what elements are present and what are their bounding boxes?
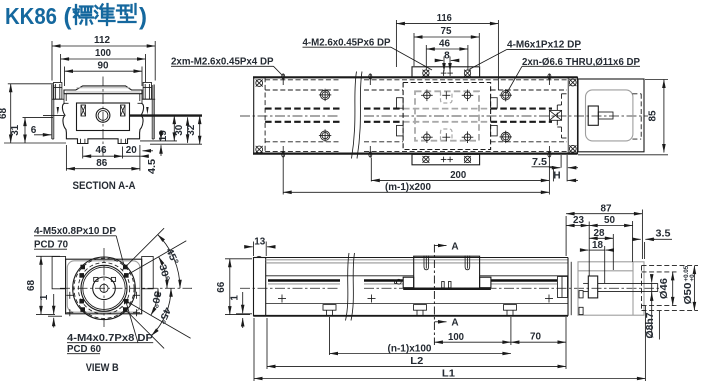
side motor bracket gray (578, 262, 644, 315)
svg-text:L2: L2 (410, 356, 423, 367)
svg-text:75: 75 (441, 26, 452, 37)
svg-text:3.5: 3.5 (656, 229, 671, 240)
svg-text:): ) (139, 4, 147, 31)
svg-text:PCD 60: PCD 60 (67, 344, 102, 355)
svg-text:30°: 30° (148, 290, 162, 309)
dimension 31 (23, 117, 54, 119)
dimension 30 (187, 117, 189, 143)
side section line A-A (433, 245, 435, 346)
dimension (n-1)x100 (330, 353, 511, 355)
plan ball screw hidden thick (265, 108, 340, 110)
side coupling (588, 276, 597, 298)
2xn counterbore holes right pair (500, 89, 512, 101)
rail top flange lines (52, 98, 64, 100)
block screw right (121, 105, 126, 116)
side break lines (346, 253, 350, 321)
svg-text:SECTION A-A: SECTION A-A (73, 180, 136, 192)
base bottom reference lines (150, 143, 202, 145)
base feet inner lines (80, 139, 82, 144)
svg-text:23: 23 (573, 215, 584, 226)
side carriage wings (403, 277, 414, 288)
dimension 50 (588, 222, 590, 277)
2xn counterbore holes left pair (319, 89, 331, 101)
svg-text:4-M4x0.7Px8 DP: 4-M4x0.7Px8 DP (67, 333, 154, 344)
side screw end bearing (558, 277, 568, 298)
plan body end face (567, 77, 569, 153)
side base bottom (254, 315, 569, 317)
side base top line (266, 303, 568, 305)
dimension 1 side (242, 292, 244, 313)
view B leader M5 (116, 236, 123, 264)
bottom flange plate (412, 154, 480, 165)
svg-text:116: 116 (437, 13, 452, 24)
motor hidden lines plan (640, 94, 642, 139)
view B radial lines (122, 228, 164, 270)
carriage small cross marks (442, 91, 450, 99)
dimension 68 (8, 83, 53, 85)
svg-text:66: 66 (216, 281, 227, 292)
dimension O8h7 (651, 276, 653, 283)
side carriage block (414, 256, 480, 288)
view B shaft hole (93, 277, 116, 300)
carriage block section (77, 103, 130, 131)
plan bottom dims ext lines (552, 167, 554, 182)
svg-text:100: 100 (95, 48, 111, 59)
datum surface line right (130, 114, 203, 116)
svg-text:7.5: 7.5 (532, 157, 547, 168)
svg-text:4.5: 4.5 (147, 159, 158, 174)
dimension 19 (173, 116, 175, 141)
locknut symbol (549, 110, 561, 120)
svg-text:Ø8h7: Ø8h7 (645, 312, 656, 338)
svg-text:68: 68 (0, 108, 9, 119)
view B rail ears (52, 257, 66, 289)
svg-text:70: 70 (530, 332, 541, 343)
plan hidden rail edges (265, 89, 340, 91)
side motor hidden dashed (641, 266, 643, 311)
motor body gray rounded (586, 90, 633, 141)
svg-text:18: 18 (592, 240, 603, 251)
section A-A centerline (102, 77, 104, 164)
svg-text:KK86: KK86 (5, 3, 57, 29)
clamp arrows under posts (57, 107, 59, 115)
table top plate (64, 86, 142, 94)
view B corner plus marks (66, 292, 73, 299)
dimension 87 (565, 216, 567, 256)
view B pilot circle (73, 257, 136, 320)
plan left cap hidden edge (264, 77, 266, 153)
carriage hidden outline (403, 83, 491, 150)
svg-text:20: 20 (126, 145, 137, 156)
dimension 8 (443, 57, 445, 72)
svg-text:A: A (451, 318, 458, 329)
view B angle arc 45 bottom (151, 288, 171, 335)
svg-text:1: 1 (39, 294, 50, 300)
svg-text:PCD 70: PCD 70 (34, 239, 69, 250)
dimension 86 (66, 168, 139, 170)
right flange screw post (143, 83, 151, 100)
side bottom ext lines (253, 318, 255, 381)
side dowel pins (442, 282, 445, 288)
dimension L1 (254, 378, 645, 380)
svg-text:28: 28 (594, 228, 605, 239)
svg-text:L1: L1 (442, 368, 455, 379)
view B angle arc 30 bottom (151, 288, 158, 315)
svg-text:90: 90 (98, 60, 109, 71)
svg-text:8: 8 (444, 51, 450, 62)
carriage top plate gray hidden (415, 91, 479, 140)
side motor shaft (598, 282, 658, 284)
svg-text:46: 46 (439, 38, 450, 49)
svg-text:A: A (451, 241, 458, 252)
svg-text:32: 32 (186, 124, 197, 135)
view B dimension 68 (36, 255, 60, 257)
svg-text:4-M5x0.8Px10 DP: 4-M5x0.8Px10 DP (34, 226, 116, 237)
svg-text:87: 87 (601, 203, 612, 214)
dimension 100 (60, 54, 62, 82)
dimension 116 (395, 20, 397, 67)
dimension 75 (413, 33, 415, 66)
svg-text:46: 46 (96, 145, 107, 156)
side grease nipple (396, 279, 401, 284)
dimension 4.5 (160, 130, 162, 140)
svg-text:VIEW B: VIEW B (86, 362, 119, 374)
dimension 112 (51, 41, 53, 81)
carriage side wiper tabs (397, 98, 404, 109)
svg-text:Ø50: Ø50 (683, 282, 694, 305)
base profile (62, 103, 143, 143)
svg-text:H: H (553, 170, 560, 181)
dimension 23 (566, 225, 589, 227)
view B centerlines (103, 248, 105, 327)
2xm hole ticks top edge (282, 74, 285, 86)
view B angle arc 45 top (158, 235, 180, 289)
svg-text:30: 30 (174, 124, 185, 135)
dimension 13 (253, 242, 255, 257)
view B angle arc 30 top (159, 257, 167, 289)
svg-text:(n-1)x100: (n-1)x100 (388, 343, 433, 354)
side cover lines (266, 259, 568, 261)
view B horizontal ref to arcs (191, 287, 194, 289)
side centerline (240, 287, 340, 289)
ball screw bore circle (96, 109, 110, 123)
side ball screw thick (268, 279, 340, 281)
plan corner screw bottom-right (569, 145, 576, 152)
view B bearing rings (81, 265, 127, 311)
view B flange square (66, 259, 142, 314)
view B motor gray rounded square (67, 261, 140, 312)
right side plate (153, 85, 155, 140)
svg-text:86: 86 (96, 158, 107, 169)
side mounting bolts (323, 305, 336, 311)
side carriage screws (424, 256, 429, 270)
svg-text:68: 68 (26, 280, 37, 291)
dimension 85 (645, 79, 668, 81)
motor housing plan (578, 79, 644, 152)
top flange plate (412, 67, 480, 78)
svg-text:+0: +0 (689, 274, 696, 282)
svg-text:(m-1)x200: (m-1)x200 (385, 182, 432, 193)
dimension 46 (83, 155, 123, 157)
block screw left (81, 105, 86, 116)
dimension 90 (64, 67, 66, 87)
dimension 70 (511, 341, 566, 343)
section bottom ext lines (65, 145, 67, 171)
view B M4 holes PCD60 (124, 273, 129, 278)
motor shaft plan (588, 106, 598, 125)
plan corner screw top-right (569, 79, 576, 86)
svg-text:Ø46: Ø46 (659, 278, 670, 299)
svg-text:31: 31 (10, 124, 21, 135)
left side plate (51, 85, 53, 140)
2xm hole ticks bottom edge (282, 146, 285, 158)
datum surface line left (43, 115, 64, 117)
svg-text:2xm-M2.6x0.45Px4 DP: 2xm-M2.6x0.45Px4 DP (171, 57, 274, 68)
side rail right edge (567, 258, 569, 316)
dimension 32 (199, 116, 201, 145)
svg-text:100: 100 (448, 332, 464, 343)
section arrow A bottom (434, 321, 446, 323)
svg-text:85: 85 (647, 110, 658, 121)
left flange screw post (54, 83, 62, 100)
view B PCD dashed circles (74, 258, 134, 318)
svg-text:4-M2.6x0.45Px6 DP: 4-M2.6x0.45Px6 DP (303, 37, 391, 48)
svg-text:50: 50 (604, 215, 615, 226)
carriage M2.6 holes (421, 90, 433, 102)
plan centerline (240, 115, 340, 117)
side rail top edge (254, 257, 569, 259)
svg-text:4-M6x1Px12 DP: 4-M6x1Px12 DP (507, 40, 581, 51)
svg-text:30°: 30° (156, 263, 171, 282)
dimension (m-1)x200 (282, 158, 284, 195)
plan corner screw top-left (256, 79, 263, 86)
plan break lines (352, 72, 357, 159)
side left cap (254, 258, 266, 316)
dimension L2 (267, 365, 566, 367)
carriage center recirculation notches gray (441, 92, 453, 103)
side plus marks (278, 295, 286, 303)
dimension 66 (225, 258, 252, 260)
dimension 28 (612, 234, 614, 270)
dimension O50 (693, 266, 695, 311)
dimension 46 plan (425, 45, 427, 70)
view B dimension 1 (53, 294, 55, 314)
svg-text:1: 1 (229, 295, 240, 301)
table side skirts (64, 94, 142, 104)
dimension 18 (604, 246, 606, 283)
svg-text:200: 200 (450, 170, 466, 181)
svg-text:112: 112 (94, 35, 110, 46)
side bracket screws (579, 291, 583, 298)
view B center circle (100, 284, 108, 292)
svg-text:13: 13 (254, 236, 265, 247)
svg-text:19: 19 (158, 130, 169, 141)
section arrow A top (434, 245, 446, 247)
dimension 200 (371, 179, 549, 181)
plan body outline (254, 77, 578, 153)
view B M5 holes PCD70 (123, 265, 128, 270)
plan corner screw bottom-left (256, 146, 263, 153)
right bearing block hidden steps (556, 105, 558, 127)
dimension 100 side (434, 341, 511, 343)
dimension O46 (672, 272, 674, 306)
svg-text:(: ( (64, 4, 72, 31)
dimension 20 (123, 155, 140, 157)
